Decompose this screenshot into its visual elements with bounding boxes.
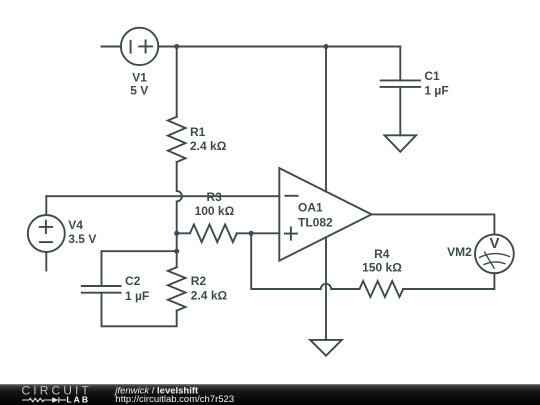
op-amp plus sign (285, 228, 297, 240)
wire V1 left stub (102, 46, 121, 48)
svg-text:VM2: VM2 (447, 245, 472, 259)
svg-text:R1: R1 (190, 125, 206, 139)
wire R1 to node with hop over horizontal wire (177, 162, 182, 233)
wire C1 bottom lead (399, 87, 401, 135)
voltmeter VM2 (475, 234, 514, 273)
ground below C1 (385, 135, 417, 152)
svg-text:http://circuitlab.com/ch7r523: http://circuitlab.com/ch7r523 (115, 394, 234, 405)
wire between node dots (176, 233, 178, 251)
op-amp OA1 triangle (279, 168, 371, 261)
svg-text:V1: V1 (132, 70, 147, 84)
node dot top rail / supply (324, 44, 329, 49)
wire node to R2 (176, 251, 178, 267)
svg-text:5 V: 5 V (130, 84, 148, 98)
svg-text:2.4 kΩ: 2.4 kΩ (190, 139, 227, 153)
wire op-amp supply top (to V+ pin on triangle edge) (325, 47, 327, 192)
node dot R1/R3/R2 (174, 231, 179, 236)
svg-text:R2: R2 (191, 274, 207, 288)
wire C2 top lead (101, 251, 103, 286)
svg-text:3.5 V: 3.5 V (68, 232, 96, 246)
capacitor C1 (381, 80, 421, 87)
svg-text:R4: R4 (374, 247, 390, 261)
node dot R3/plus/feedback (249, 231, 254, 236)
logo resistor-diode glyph (22, 397, 66, 403)
resistor R1 (168, 117, 186, 162)
wire R3 to op-amp plus input (237, 232, 279, 234)
resistor R4 (360, 281, 404, 297)
svg-text:OA1: OA1 (298, 201, 323, 215)
wire R1 top branch (176, 47, 178, 117)
svg-text:TL082: TL082 (298, 215, 333, 229)
node dot top rail / R1 (174, 44, 179, 49)
svg-text:R3: R3 (207, 190, 223, 204)
svg-text:C2: C2 (125, 274, 141, 288)
wire node to R3 (177, 232, 190, 234)
wire V4 top lead (45, 196, 47, 215)
voltmeter VM2 meter face (479, 252, 510, 269)
ground below op-amp (310, 340, 342, 356)
wire V4 bottom stub (45, 252, 47, 271)
resistor R3 (190, 225, 237, 243)
wire C1 top lead (399, 47, 401, 81)
svg-text:1 µF: 1 µF (125, 289, 149, 303)
wire top rail V1 to C1 (158, 46, 400, 48)
svg-text:V4: V4 (68, 218, 83, 232)
wire C2 to node (102, 250, 177, 252)
wire plus node down and right with hop over ground wire (251, 233, 359, 289)
svg-text:1 µF: 1 µF (424, 84, 448, 98)
svg-text:C1: C1 (424, 69, 440, 83)
wire op-amp V- pin to ground (325, 237, 327, 340)
wire V4 to op-amp minus input (46, 195, 279, 197)
node dot C2 branch (174, 249, 179, 254)
svg-text:LAB: LAB (66, 394, 90, 404)
svg-text:100 kΩ: 100 kΩ (195, 204, 235, 218)
svg-text:V: V (489, 235, 499, 252)
svg-text:2.4 kΩ: 2.4 kΩ (191, 289, 228, 303)
op-amp minus sign (285, 195, 297, 197)
svg-text:150 kΩ: 150 kΩ (362, 261, 402, 275)
wire R4 to VM2 bottom (403, 273, 494, 289)
voltage source V1 (121, 28, 158, 65)
voltage source V4 (28, 215, 65, 252)
wire op-amp output to VM2 top (372, 214, 495, 234)
resistor R2 (168, 267, 186, 310)
wire R2 bottom to C2 bottom loop (102, 293, 177, 327)
capacitor C2 (82, 286, 121, 293)
